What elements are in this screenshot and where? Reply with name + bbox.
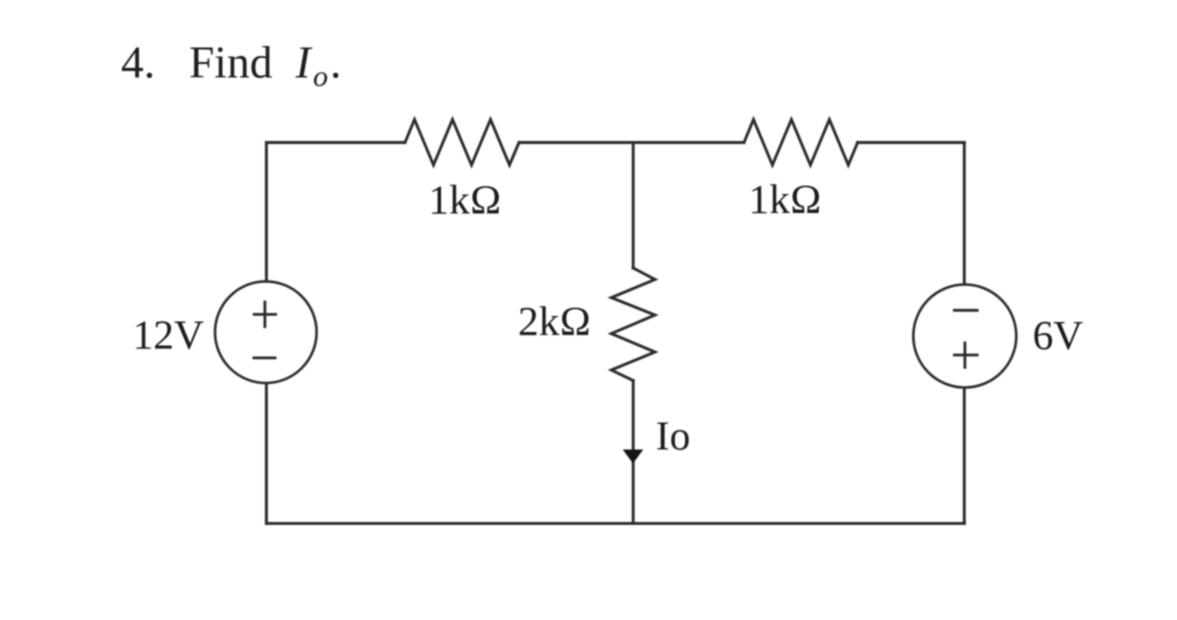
wire right vertical bottom: [963, 388, 966, 524]
resistor R3 2k (middle vertical zigzag): [611, 268, 655, 381]
svg-text:12V: 12V: [133, 311, 204, 357]
wire top-right horizontal: [858, 141, 965, 144]
V2 minus sign: [953, 309, 979, 312]
resistor R1 1k (top-left zigzag): [405, 120, 519, 166]
wire top-left horizontal: [266, 141, 405, 144]
wire middle vertical bottom: [632, 381, 635, 524]
svg-text:1kΩ: 1kΩ: [428, 176, 501, 222]
V1 minus sign: [253, 356, 277, 359]
svg-text:2kΩ: 2kΩ: [518, 298, 591, 344]
V1 plus sign: [253, 301, 277, 328]
svg-text:6V: 6V: [1033, 312, 1084, 358]
wire left vertical top: [265, 143, 268, 283]
svg-text:Io: Io: [656, 413, 690, 459]
voltage source V1 12V (circle): [215, 281, 317, 383]
svg-text:.: .: [330, 37, 341, 88]
resistor R2 1k (top-right zigzag): [744, 120, 858, 166]
wire middle vertical top: [632, 143, 635, 269]
wire bottom horizontal: [266, 522, 964, 525]
wire right vertical top: [963, 143, 966, 286]
svg-text:o: o: [313, 60, 328, 93]
voltage source V2 6V (circle): [913, 285, 1016, 388]
svg-text:1kΩ: 1kΩ: [749, 176, 822, 222]
current arrow Io (arrowhead): [623, 450, 644, 464]
wire top-middle horizontal: [519, 141, 744, 144]
V2 plus sign: [953, 342, 979, 369]
svg-text:4.: 4.: [121, 36, 155, 87]
wire left vertical bottom: [265, 383, 268, 523]
svg-text:Find: Find: [189, 36, 273, 87]
svg-text:I: I: [295, 37, 313, 88]
